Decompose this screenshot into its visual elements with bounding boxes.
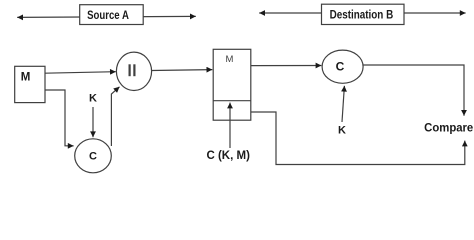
- svg-text:Compare: Compare: [424, 121, 474, 134]
- svg-text:M: M: [21, 72, 31, 84]
- svg-text:C: C: [336, 60, 345, 74]
- svg-text:C: C: [89, 151, 97, 163]
- svg-text:Source A: Source A: [87, 9, 129, 22]
- svg-text:Destination B: Destination B: [330, 8, 394, 21]
- svg-text:C (K, M): C (K, M): [206, 150, 250, 162]
- svg-text:M: M: [226, 54, 234, 65]
- svg-text:K: K: [338, 124, 346, 136]
- svg-text:K: K: [89, 93, 97, 105]
